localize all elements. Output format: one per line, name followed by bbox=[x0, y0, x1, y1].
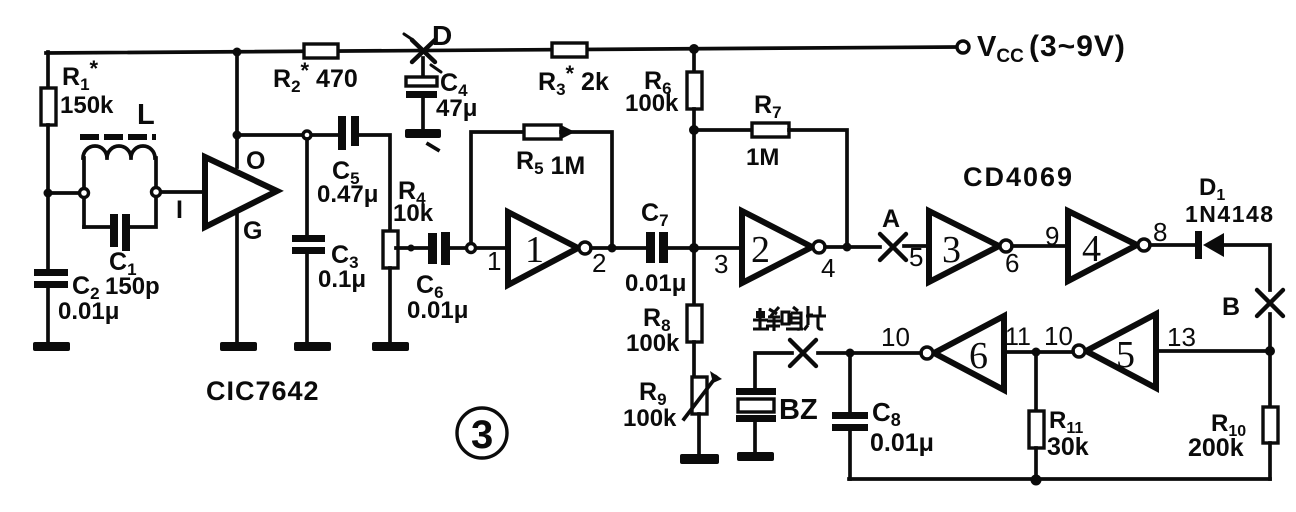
wire node to C8 bbox=[848, 353, 852, 412]
svg-text:C8: C8 bbox=[872, 397, 901, 430]
svg-text:CIC7642: CIC7642 bbox=[206, 376, 320, 406]
node C8 junction bbox=[846, 349, 855, 358]
svg-text:10k: 10k bbox=[393, 200, 434, 227]
svg-text:4: 4 bbox=[1082, 228, 1101, 270]
terminal Vcc bbox=[957, 41, 969, 53]
node buzzer break bbox=[790, 340, 816, 366]
svg-text:5: 5 bbox=[1116, 334, 1135, 376]
svg-text:8: 8 bbox=[1153, 217, 1167, 247]
svg-text:G: G bbox=[243, 217, 262, 245]
node B/R10/pin13 junction bbox=[1265, 346, 1275, 356]
svg-text:VCC: VCC bbox=[977, 31, 1024, 67]
svg-text:100k: 100k bbox=[626, 330, 680, 357]
node rail/R6 junction bbox=[689, 44, 699, 54]
wire node to R7 bbox=[694, 128, 752, 132]
ground under R9 bbox=[680, 454, 719, 464]
glyph pian bbox=[804, 306, 826, 330]
capacitor C1 bbox=[110, 214, 118, 247]
diode D1 1N4148 bbox=[1195, 231, 1202, 259]
svg-text:100k: 100k bbox=[625, 90, 679, 117]
svg-text:100k: 100k bbox=[623, 405, 677, 432]
wire gate6 output to C8 node bbox=[818, 351, 921, 355]
svg-text:200k: 200k bbox=[1188, 434, 1244, 462]
node feedback/output junction bbox=[608, 244, 617, 253]
wire C6 to inverter 1 input bbox=[450, 246, 508, 250]
svg-text:R3* 2k: R3* 2k bbox=[538, 61, 609, 99]
wire C5 to R4 drop bbox=[359, 135, 390, 231]
svg-text:0.1μ: 0.1μ bbox=[318, 266, 366, 293]
capacitor C6 bbox=[428, 233, 437, 264]
node pin3 junction bbox=[689, 243, 699, 253]
wire node to tank bbox=[48, 191, 79, 195]
wire BZ to ground bbox=[753, 422, 757, 452]
ground under C2 bbox=[33, 342, 70, 351]
inverter U2D gate 4 bbox=[1068, 211, 1137, 281]
wire O branch horizontal bbox=[237, 133, 338, 137]
wire G pin to ground bbox=[235, 212, 239, 342]
svg-text:47μ: 47μ bbox=[436, 95, 477, 122]
svg-text:L: L bbox=[137, 99, 155, 131]
node D break on rail bbox=[404, 34, 441, 72]
inverter U2A gate 1 bbox=[508, 212, 578, 285]
ground under C4 bbox=[405, 129, 441, 138]
inverter U2F gate 6 bbox=[934, 316, 1004, 390]
resistor R11 bbox=[1029, 411, 1044, 448]
wire node to C2 bbox=[46, 193, 50, 269]
node R11 junction bbox=[1032, 348, 1041, 357]
wire junction to gate5 input pin13 bbox=[1156, 349, 1270, 353]
wire gate2 output to node A bbox=[825, 245, 880, 249]
resistor R2 bbox=[304, 44, 338, 58]
wire tank to amp input I bbox=[161, 190, 205, 194]
svg-text:C7: C7 bbox=[641, 199, 669, 230]
svg-text:4: 4 bbox=[821, 253, 835, 283]
svg-text:9: 9 bbox=[1045, 221, 1059, 251]
wire C4 to ground bbox=[421, 98, 425, 129]
wire gate1 output bbox=[591, 246, 646, 250]
node tank right terminal bbox=[152, 188, 161, 197]
svg-text:O: O bbox=[246, 147, 265, 175]
resistor R4 bbox=[383, 231, 398, 268]
resistor R8 bbox=[687, 305, 702, 342]
wire R11 drop bbox=[1034, 352, 1038, 411]
svg-text:1: 1 bbox=[525, 229, 544, 271]
buzzer BZ bbox=[736, 388, 776, 395]
svg-text:(3~9V): (3~9V) bbox=[1029, 30, 1126, 63]
svg-text:30k: 30k bbox=[1047, 433, 1089, 461]
label figure number 3 bbox=[457, 408, 507, 458]
node R6/R7 junction bbox=[689, 125, 699, 135]
inverter U2B gate 2 bbox=[742, 211, 812, 283]
ground under G bbox=[220, 342, 257, 351]
node R11/bottom rail junction bbox=[1031, 475, 1042, 486]
svg-text:2: 2 bbox=[592, 248, 606, 278]
svg-text:10: 10 bbox=[881, 322, 910, 352]
wire left drop from rail to R1 bbox=[46, 52, 50, 88]
ground under C3 bbox=[294, 342, 331, 351]
resistor R10 bbox=[1263, 407, 1278, 443]
capacitor C2 bbox=[34, 269, 68, 276]
svg-text:0.01μ: 0.01μ bbox=[625, 270, 686, 297]
wire R9 to ground bbox=[697, 414, 701, 454]
resistor R1 bbox=[41, 88, 56, 125]
wire gate5 output to node11 bbox=[1004, 350, 1073, 354]
svg-text:3: 3 bbox=[471, 413, 493, 457]
wire tank bottom right bbox=[130, 197, 156, 227]
svg-text:2: 2 bbox=[751, 229, 770, 271]
svg-text:150p: 150p bbox=[105, 273, 160, 300]
wire D to C4 bbox=[421, 58, 425, 77]
wire A to gate3 bbox=[904, 244, 929, 248]
svg-text:CD4069: CD4069 bbox=[963, 162, 1074, 192]
wire C3 to ground bbox=[305, 254, 309, 342]
wire R4 tap to C6 bbox=[396, 246, 428, 250]
wire feedback left leg bbox=[471, 132, 524, 243]
wire C8 to bottom rail bbox=[848, 431, 852, 479]
node tank left terminal bbox=[80, 189, 89, 198]
wire B to junction bbox=[1268, 314, 1272, 351]
svg-text:B: B bbox=[1222, 293, 1240, 321]
svg-text:1M: 1M bbox=[746, 144, 779, 171]
wire R6 to R7 node bbox=[692, 109, 696, 248]
wire gate4 output to D1 bbox=[1150, 243, 1195, 247]
resistor R9 adjustable bbox=[692, 377, 707, 414]
svg-text:BZ: BZ bbox=[779, 394, 818, 426]
svg-text:A: A bbox=[882, 205, 900, 233]
ground under R4 bbox=[372, 342, 409, 351]
glyph feng bbox=[753, 308, 769, 329]
svg-text:6: 6 bbox=[969, 335, 988, 377]
wire break to BZ corner bbox=[755, 353, 792, 388]
inverter U2C gate 3 bbox=[929, 211, 999, 282]
svg-text:150k: 150k bbox=[60, 92, 114, 119]
node C3 branch junction bbox=[303, 131, 311, 139]
wire gate3 to gate4 bbox=[1012, 244, 1068, 248]
node rail/O-pin junction bbox=[233, 48, 242, 57]
inverter U2E gate 5 bbox=[1086, 314, 1156, 388]
node junction R1/C2/tank bbox=[44, 189, 53, 198]
wire C3 drop bbox=[305, 139, 309, 235]
op-amp U1 CIC7642 bbox=[205, 157, 277, 227]
svg-text:R5 1M: R5 1M bbox=[516, 147, 585, 180]
capacitor C8 bbox=[832, 412, 868, 419]
node B break bbox=[1257, 290, 1283, 316]
svg-text:I: I bbox=[176, 196, 183, 224]
capacitor C4 bbox=[406, 77, 437, 86]
svg-text:0.47μ: 0.47μ bbox=[317, 181, 378, 208]
wire R10 drop bbox=[1268, 351, 1272, 407]
svg-text:0.01μ: 0.01μ bbox=[58, 298, 119, 325]
node A break bbox=[880, 234, 906, 260]
svg-text:D: D bbox=[432, 20, 452, 51]
resistor R7 bbox=[752, 123, 789, 137]
wire top supply rail bbox=[46, 47, 957, 53]
capacitor C7 bbox=[646, 232, 655, 263]
svg-text:6: 6 bbox=[1005, 248, 1019, 278]
wire R7 to gate2 output node bbox=[789, 130, 847, 248]
wire tank coil right leg bbox=[154, 158, 158, 187]
capacitor C3 bbox=[292, 235, 325, 242]
svg-text:R1*: R1* bbox=[62, 56, 99, 94]
resistor R3 bbox=[552, 43, 587, 57]
ground under BZ bbox=[737, 452, 774, 461]
svg-text:1N4148: 1N4148 bbox=[1185, 201, 1275, 227]
capacitor C5 bbox=[338, 116, 346, 150]
resistor R6 bbox=[687, 72, 702, 109]
label 蜂鸣片 bbox=[753, 306, 826, 331]
inductor L bbox=[80, 99, 156, 227]
wire R11 to bottom rail bbox=[1034, 448, 1038, 479]
resistor R5 bbox=[524, 125, 561, 139]
node O-pin branch junction bbox=[233, 131, 242, 140]
wire R8 to R9 bbox=[692, 342, 696, 377]
wire C2 to ground bbox=[46, 288, 50, 342]
svg-text:0.01μ: 0.01μ bbox=[407, 297, 468, 324]
svg-text:13: 13 bbox=[1167, 322, 1196, 352]
svg-text:10: 10 bbox=[1044, 321, 1073, 351]
wire bottom rail bbox=[849, 477, 1270, 481]
svg-text:R2* 470: R2* 470 bbox=[273, 58, 358, 96]
glyph ming bbox=[782, 312, 789, 324]
node R7 feedback junction bbox=[843, 243, 852, 252]
wire R10 to bottom rail bbox=[1268, 443, 1272, 479]
svg-text:3: 3 bbox=[714, 249, 728, 279]
svg-text:R7: R7 bbox=[754, 91, 782, 122]
svg-text:11: 11 bbox=[1005, 323, 1031, 351]
wire R1 to node bbox=[46, 125, 50, 193]
wire R4 to ground bbox=[388, 268, 392, 342]
wire rail to R6 bbox=[692, 49, 696, 72]
svg-text:D1: D1 bbox=[1199, 174, 1225, 204]
wire feedback right leg bbox=[561, 132, 612, 248]
wire O pin up to rail bbox=[235, 52, 239, 167]
svg-text:0.01μ: 0.01μ bbox=[870, 429, 934, 457]
wire D1 to corner down bbox=[1224, 245, 1270, 290]
wire C7 to node3 bbox=[668, 246, 742, 250]
wire tank bottom left bbox=[84, 225, 110, 229]
node inverter1 input bbox=[467, 244, 476, 253]
svg-text:3: 3 bbox=[942, 229, 961, 271]
svg-text:1: 1 bbox=[487, 246, 501, 276]
wire R8 drop bbox=[692, 248, 696, 305]
